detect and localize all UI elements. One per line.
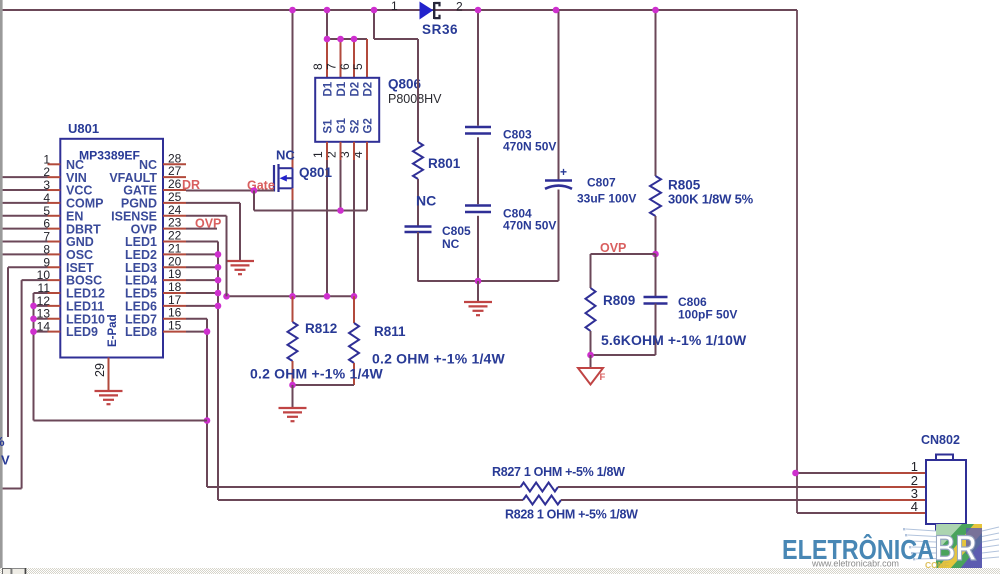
svg-text:1: 1	[311, 151, 325, 158]
svg-text:1: 1	[391, 0, 398, 13]
svg-text:300K 1/8W 5%: 300K 1/8W 5%	[668, 192, 754, 207]
svg-text:R828 1 OHM +-5% 1/8W: R828 1 OHM +-5% 1/8W	[505, 508, 638, 522]
svg-text:R811: R811	[374, 324, 406, 339]
svg-text:OVP: OVP	[195, 217, 221, 231]
svg-text:470N 50V: 470N 50V	[503, 140, 556, 154]
svg-text:OVP: OVP	[600, 241, 626, 255]
svg-text:4: 4	[911, 499, 918, 514]
svg-text:7: 7	[325, 63, 339, 70]
svg-text:BR: BR	[935, 529, 977, 568]
svg-text:0.2 OHM +-1% 1/4W: 0.2 OHM +-1% 1/4W	[250, 366, 384, 382]
svg-text:S1: S1	[323, 119, 335, 134]
svg-text:5.6KOHM +-1% 1/10W: 5.6KOHM +-1% 1/10W	[601, 332, 747, 348]
svg-text:2: 2	[456, 0, 463, 14]
svg-text:D2: D2	[350, 82, 362, 97]
svg-text:F: F	[600, 372, 606, 383]
svg-text:+: +	[560, 165, 567, 179]
svg-text:D1: D1	[336, 81, 348, 96]
svg-text:NC: NC	[442, 237, 460, 251]
svg-text:G1: G1	[336, 118, 348, 134]
svg-text:MP3389EF: MP3389EF	[79, 148, 140, 162]
svg-text:D2: D2	[363, 82, 375, 97]
svg-text:R805: R805	[668, 178, 701, 193]
svg-text:DR: DR	[182, 178, 200, 192]
svg-text:G2: G2	[363, 118, 375, 133]
svg-text:R809: R809	[603, 293, 635, 308]
svg-text:R827 1 OHM +-5% 1/8W: R827 1 OHM +-5% 1/8W	[492, 465, 625, 479]
svg-text:D1: D1	[323, 81, 335, 96]
svg-text:R801: R801	[428, 156, 461, 171]
svg-text:R812: R812	[305, 321, 337, 336]
svg-text:C807: C807	[587, 176, 616, 190]
svg-text:NC: NC	[276, 148, 295, 163]
svg-text:SR36: SR36	[422, 22, 458, 37]
svg-text:E-Pad: E-Pad	[107, 314, 119, 347]
svg-text:100pF 50V: 100pF 50V	[678, 308, 737, 322]
svg-text:www.eletronicabr.com: www.eletronicabr.com	[811, 559, 899, 570]
svg-text:Q801: Q801	[299, 165, 333, 180]
svg-text:470N 50V: 470N 50V	[503, 219, 556, 233]
svg-text:S2: S2	[350, 119, 362, 133]
svg-text:NC: NC	[416, 193, 436, 209]
svg-text:6: 6	[338, 63, 352, 70]
svg-text:C805: C805	[442, 224, 471, 238]
svg-text:15: 15	[168, 319, 182, 333]
svg-text:1: 1	[911, 459, 918, 474]
svg-text:5: 5	[351, 63, 365, 70]
svg-text:29: 29	[93, 363, 107, 377]
svg-text:CN802: CN802	[921, 433, 960, 447]
svg-text:LED9: LED9	[66, 325, 98, 339]
svg-text:%: %	[0, 434, 5, 449]
svg-text:U801: U801	[68, 121, 99, 136]
svg-text:P8008HV: P8008HV	[388, 92, 442, 106]
svg-text:Q806: Q806	[388, 77, 422, 92]
svg-text:0.2 OHM +-1% 1/4W: 0.2 OHM +-1% 1/4W	[372, 351, 506, 367]
svg-text:8: 8	[311, 63, 325, 70]
svg-text:33uF 100V: 33uF 100V	[577, 192, 636, 206]
svg-text:LED8: LED8	[125, 325, 157, 339]
svg-text:V: V	[1, 453, 10, 468]
